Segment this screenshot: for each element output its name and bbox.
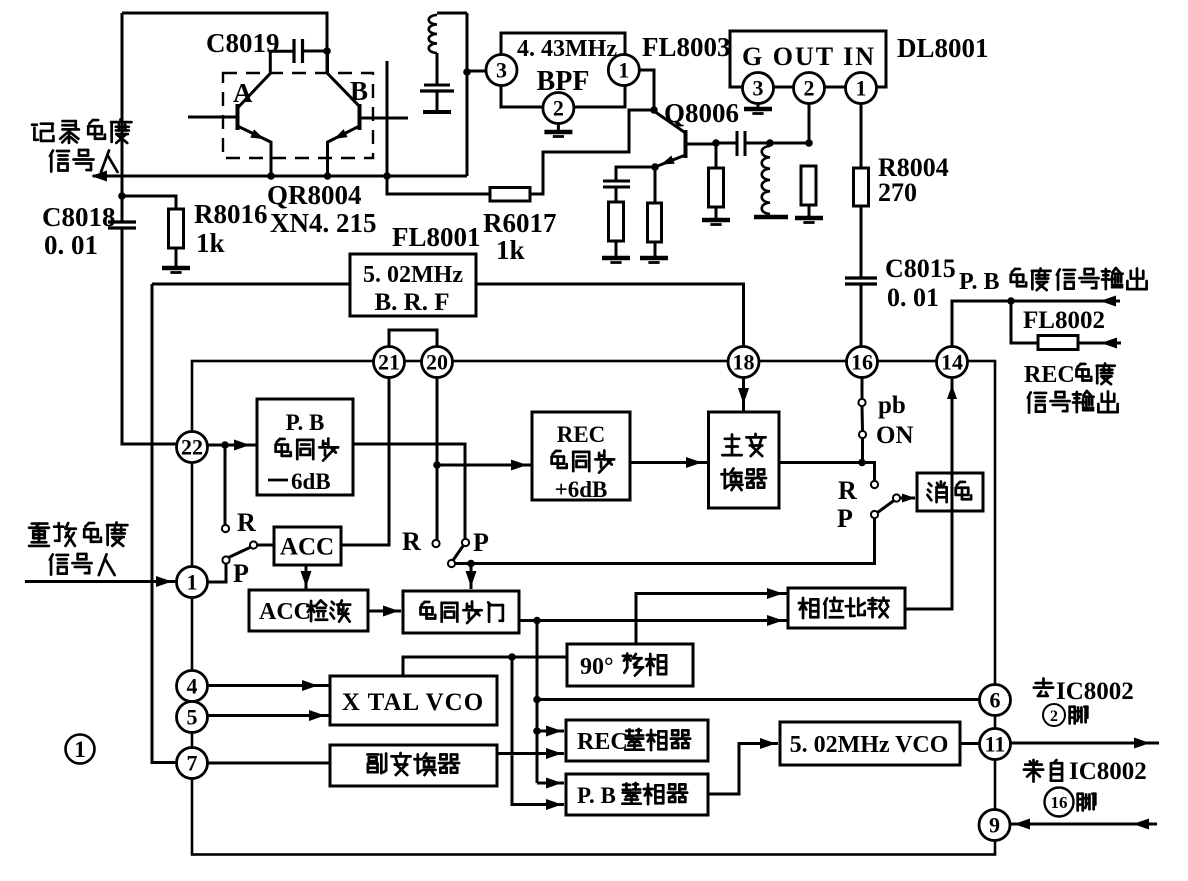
node B emitter on record line [324, 172, 332, 180]
svg-text:6: 6 [990, 687, 1001, 712]
switch contact P (gate sw) [462, 539, 469, 546]
wire pin2-R ground [808, 205, 811, 216]
block REC +6dB box [532, 412, 630, 500]
svg-text:1: 1 [74, 737, 86, 762]
svg-text:C8015: C8015 [885, 254, 956, 283]
svg-text:DL8001: DL8001 [897, 33, 989, 63]
pin 3 DL8001 [743, 73, 774, 104]
pin 14 [937, 347, 968, 378]
wire gate branch down [536, 621, 539, 784]
pin 2 DL8001 [794, 73, 825, 104]
arrowhead into gate top [466, 571, 477, 587]
transistor A emitter arrow [250, 129, 264, 139]
node P.B input branch [221, 441, 229, 449]
arrowhead into P.B box [234, 440, 250, 451]
transistor A base bar [236, 104, 240, 130]
wire R8004 to C8015 [860, 206, 863, 277]
pin 18 [728, 347, 759, 378]
block burst gate box [403, 591, 519, 633]
label 换器 [721, 468, 766, 490]
ground under DL8001 pin3 [744, 109, 772, 114]
wire pin5 to vco [208, 714, 331, 717]
wire pole to killer [900, 497, 915, 500]
node Q8006 emitter [651, 163, 659, 171]
wire pin22 input [122, 443, 177, 446]
svg-text:IC8002: IC8002 [1056, 678, 1134, 705]
pin 9 [979, 810, 1010, 841]
svg-text:REC: REC [1024, 362, 1075, 388]
label 重放色度 [29, 523, 127, 546]
transistor A emitter [238, 126, 272, 142]
block ACC box [274, 527, 341, 565]
svg-text:B. R. F: B. R. F [375, 289, 450, 316]
svg-text:R: R [402, 527, 421, 556]
switch lever (kill sw) [878, 501, 895, 513]
wire BRF left riser to pin7 [152, 284, 177, 763]
capacitor C8018 plates [108, 222, 136, 228]
svg-text:11: 11 [985, 731, 1006, 756]
switch contact R (kill sw) [871, 481, 878, 488]
label 主变 [722, 434, 765, 456]
wire subcarrier drop [512, 657, 564, 805]
wire 5.02 VCO to pin11 [960, 742, 980, 745]
wire to pin 6 [537, 698, 980, 701]
svg-text:0. 01: 0. 01 [887, 283, 939, 312]
node tuning coil tap [766, 139, 774, 147]
ground under left R [602, 258, 630, 263]
pin 4 [177, 671, 208, 702]
pin 2 FL8003 [543, 93, 574, 124]
filter FL8001 box (B.R.F) [350, 254, 476, 316]
transistor B emitter [328, 126, 360, 142]
wire tank top [437, 12, 467, 15]
wire to ground (right R) [654, 242, 657, 256]
wire top loop of record-amp block [122, 13, 327, 73]
transistor B collector [328, 73, 360, 106]
arrowhead into converter top [738, 388, 749, 404]
svg-text:pb: pb [878, 392, 906, 419]
wire FL8002 out [1078, 342, 1121, 345]
transistor Q8006 emitter arrow [661, 155, 675, 164]
wire coil node to DL8001 node [770, 142, 809, 145]
node gate output branch [533, 617, 541, 625]
pin 7 [177, 748, 208, 779]
wire coupling cap to coil node [745, 142, 770, 145]
node FL8002 branch [1007, 297, 1015, 305]
block X TAL VCO box [330, 676, 497, 725]
pin 5 [177, 702, 208, 733]
wire R6017 to Q8006 base node [530, 110, 653, 194]
wire DL8001 pin3 stem [757, 103, 760, 107]
resistor R8004 [854, 168, 869, 206]
wire C8018 to pin 22 [122, 228, 177, 444]
switch pole (left sw) [222, 556, 229, 563]
arrowhead pin9 near [1014, 819, 1030, 830]
arrowhead pin9 far [1133, 819, 1149, 830]
svg-text:18: 18 [733, 349, 755, 374]
node C8019/top-loop [323, 47, 331, 55]
svg-text:20: 20 [426, 349, 448, 374]
svg-text:1: 1 [187, 569, 198, 594]
svg-text:P: P [233, 559, 249, 588]
arrowhead pin11 out [1134, 738, 1150, 749]
wire DL8001 pin1 down [860, 103, 863, 168]
arrowhead REC output [1101, 338, 1117, 349]
ground under FL8003 pin2 [544, 132, 572, 137]
wire BRF right to pin 18 [476, 284, 744, 346]
arrowhead into gate [383, 606, 399, 617]
svg-text:+6dB: +6dB [555, 477, 608, 502]
label REC鉴相器 (cjk) [625, 729, 690, 750]
wire cap to resistor [615, 187, 618, 202]
wire ACC to pin21 [341, 378, 389, 546]
node A emitter on record line [267, 172, 275, 180]
arrowhead into pin 1 [156, 576, 172, 587]
label 副变换器 [367, 753, 459, 775]
transistor B base bar [358, 104, 362, 130]
wire B emitter down [326, 141, 329, 176]
block P.B detector box [566, 774, 708, 815]
svg-text:FL8003: FL8003 [642, 32, 731, 62]
arrowhead into 5.02 VCO [760, 738, 776, 749]
wire cap to bar [436, 91, 439, 110]
wire base to coupling cap [716, 142, 737, 145]
transistor Q8006 emitter [655, 155, 686, 167]
arrowhead into REC det (sub) [546, 748, 562, 759]
wire ACC down to ACC-det [305, 565, 308, 589]
wire into P.B detector upper [537, 782, 564, 785]
node subcarrier branch [508, 653, 516, 661]
arrowhead into killer [902, 494, 915, 503]
ground under pin2 R [795, 218, 823, 223]
block colour killer box [917, 473, 983, 511]
pin 6 [980, 685, 1011, 716]
svg-text:REC: REC [557, 422, 606, 447]
capacitor tank plates [420, 85, 454, 91]
wire pb to node [861, 438, 864, 463]
wire R8016 to ground [175, 248, 178, 266]
wire P.B box output [353, 444, 465, 539]
wire R8016 branch [122, 196, 176, 209]
resistor FL8002 [1038, 336, 1078, 350]
capacitor C8015 plates [845, 278, 877, 284]
svg-text:G OUT IN: G OUT IN [742, 42, 876, 71]
wire pin21 stub [388, 378, 391, 546]
wire pin9 input [1010, 823, 1157, 826]
svg-text:C8019: C8019 [206, 28, 280, 58]
svg-text:R: R [237, 508, 256, 537]
node pin6 branch [533, 696, 541, 704]
label 记录色度 [32, 120, 131, 143]
arrowhead into PB det lower [546, 799, 562, 810]
block main converter box [709, 412, 780, 508]
resistor base R [709, 168, 724, 207]
wire A emitter down [270, 141, 273, 176]
arrowhead comparator upper [767, 588, 783, 599]
wire bracket over pins 21/20 [389, 330, 437, 346]
svg-text:9: 9 [989, 812, 1000, 837]
svg-text:P: P [473, 528, 489, 557]
wire pin7 to subconverter [208, 762, 331, 765]
dashed outline QR8004 package [223, 73, 373, 158]
arrowhead pin4 [302, 680, 318, 691]
svg-text:4. 43MHz: 4. 43MHz [517, 36, 617, 62]
wire base R ground [715, 207, 718, 218]
node pb switch tie [858, 459, 866, 467]
label 移相 [623, 653, 666, 675]
ground under R8016 [162, 268, 190, 273]
resistor R8016 [169, 209, 184, 248]
ground under coil [754, 215, 788, 220]
svg-text:Q8006: Q8006 [664, 98, 739, 128]
wire coil to cap [436, 53, 439, 85]
transistor Q8006 base lead [686, 143, 716, 146]
arrowhead pin5 [309, 710, 325, 721]
pin 1 [177, 567, 208, 598]
svg-text:FL8001: FL8001 [392, 222, 481, 252]
svg-text:FL8002: FL8002 [1023, 307, 1105, 334]
svg-text:3: 3 [753, 75, 764, 100]
switch contact ACC side [250, 541, 257, 548]
svg-text:5. 02MHz VCO: 5. 02MHz VCO [790, 732, 949, 758]
wire DL8001 pin2 down [808, 103, 811, 143]
label 去IC8002 [1034, 678, 1134, 705]
wire FL8003 pin2 ground stem [557, 123, 560, 130]
label 色同步门 [421, 601, 503, 623]
svg-text:P. B: P. B [286, 410, 325, 435]
svg-text:IC8002: IC8002 [1069, 758, 1147, 785]
svg-text:ACC: ACC [280, 534, 334, 561]
label 消色 [927, 481, 971, 502]
block ACC detector box [249, 590, 368, 631]
wire C8015 to pin 16 [860, 284, 863, 346]
transistor Q8006 collector [654, 111, 686, 133]
pin 1 DL8001 [846, 73, 877, 104]
svg-text:R6017: R6017 [483, 208, 557, 238]
svg-text:5. 02MHz: 5. 02MHz [363, 262, 463, 288]
svg-text:1: 1 [618, 57, 629, 82]
ground under base R [702, 220, 730, 225]
label REC色度 [1024, 362, 1115, 388]
block P.B -6dB box [257, 399, 353, 495]
node R8016 tap [118, 192, 126, 200]
wire ACC-det to gate [368, 610, 401, 613]
svg-text:7: 7 [187, 750, 198, 775]
block 90 phase shifter box [567, 644, 693, 686]
switch contact R (gate sw) [432, 540, 439, 547]
wire base node down [715, 143, 718, 168]
label P.B色度信号输出 [959, 268, 1147, 295]
wire emitter RC branch [616, 167, 655, 180]
svg-text:R8016: R8016 [194, 199, 268, 229]
svg-text:1k: 1k [196, 228, 225, 258]
svg-text:P. B: P. B [577, 783, 616, 808]
transistor Q8006 bar [684, 130, 688, 158]
wire gate pole line [455, 562, 874, 565]
switch contact R (left sw) [222, 525, 229, 532]
wire 90deg to comparator [636, 594, 788, 645]
wire vco top line [403, 657, 567, 676]
wire B-base stub vertical [386, 61, 389, 176]
switch lever (gate sw) [453, 546, 464, 561]
svg-text:3: 3 [496, 57, 507, 82]
switch contact P (kill sw) [871, 511, 878, 518]
ground bar under tank cap [423, 110, 451, 114]
wire pin14 to PB output [952, 301, 1120, 346]
svg-text:2: 2 [804, 75, 815, 100]
wire BRF left [152, 283, 350, 286]
switch lever pb [861, 406, 865, 431]
wire pin1 to switch pole [208, 564, 227, 583]
node Q8006 collector [650, 106, 658, 114]
label P.B鉴相器 (cjk) [622, 783, 687, 804]
svg-text:XN4. 215: XN4. 215 [270, 208, 377, 238]
svg-text:6dB: 6dB [291, 469, 331, 494]
IC block border [192, 361, 995, 855]
wire to ground (left R) [615, 241, 618, 256]
wire pin20 down [436, 378, 439, 541]
switch pole (kill sw) [893, 494, 900, 501]
svg-text:0. 01: 0. 01 [44, 230, 98, 260]
wire FL8003 pin1 to Q8006 collector [639, 70, 654, 110]
switch contact pb lower [859, 431, 866, 438]
svg-text:2: 2 [553, 95, 564, 120]
switch pole (gate sw) [448, 560, 455, 567]
node gate feed [467, 560, 475, 568]
arrowhead comparator lower [767, 615, 783, 626]
wire record chroma line [93, 175, 467, 178]
label 信号入 (playback) [50, 554, 115, 575]
node base divider [712, 139, 720, 147]
svg-text:4: 4 [187, 673, 198, 698]
svg-text:X TAL VCO: X TAL VCO [342, 689, 484, 716]
svg-text:R: R [838, 476, 857, 505]
label 相位比较 [799, 597, 889, 618]
label 信号输出 [1028, 391, 1118, 413]
label ACC检波 (cjk part) [307, 600, 350, 621]
resistor emitter R (left) [609, 202, 624, 241]
svg-text:P. B: P. B [959, 269, 999, 295]
wire emitter to right R [654, 167, 657, 203]
arrowhead into REC det [546, 726, 562, 737]
wire FL8002 branch [1011, 301, 1038, 343]
wire pin20 branch to REC box [437, 464, 532, 467]
pin 16 [847, 347, 878, 378]
transistor A collector [238, 51, 295, 108]
resistor R6017 [490, 188, 530, 202]
resistor under DL8001 pin2 [801, 166, 816, 205]
arrowhead into ACC-det [301, 571, 312, 587]
label -6dB [268, 469, 331, 494]
pin 22 [177, 432, 208, 463]
wire tank to FL8003 pin3 [467, 70, 486, 73]
svg-text:1: 1 [856, 75, 867, 100]
node REC box feed [433, 461, 441, 469]
inductor under base node [762, 146, 770, 214]
wire R6017 left [387, 176, 490, 194]
svg-text:QR8004: QR8004 [267, 180, 362, 210]
node R6017 branch on record line [383, 172, 391, 180]
svg-text:22: 22 [181, 434, 203, 459]
pin 3 FL8003 [486, 55, 517, 86]
wire PB det to 5.02 VCO [708, 744, 778, 795]
filter FL8003 box [501, 33, 625, 107]
figure number circled 1 [66, 735, 95, 764]
label 信号入 (record) [50, 150, 118, 172]
wire REC box to converter [630, 461, 709, 464]
arrowhead into REC box [511, 460, 527, 471]
node tank output [463, 68, 471, 76]
arrowhead PB output [1100, 296, 1116, 307]
inductor tank coil [429, 15, 437, 53]
resistor emitter R (right) [648, 203, 662, 242]
arrowhead record chroma (left) [91, 171, 107, 182]
transistor A base lead [188, 116, 237, 119]
label 色同步 (REC box) [552, 450, 615, 472]
svg-text:ACC: ACC [259, 599, 311, 625]
block sub converter box [330, 745, 497, 786]
svg-text:ON: ON [876, 422, 914, 449]
wire C8019 right to node [303, 50, 328, 53]
capacitor coupling plates [737, 131, 745, 156]
node DL8001 pin2 drop [805, 139, 813, 147]
svg-text:16: 16 [1051, 793, 1068, 812]
pin 1 FL8003 [608, 55, 639, 86]
ground under right R [640, 258, 668, 263]
capacitor C8019 plates [294, 39, 303, 63]
wire gate output long [519, 619, 788, 622]
pin 21 [374, 347, 405, 378]
wire tank right side [466, 13, 469, 176]
wire pin18 into converter [742, 378, 745, 413]
wire converter output [779, 463, 875, 482]
svg-text:270: 270 [878, 178, 917, 207]
label circled-2 脚 [1043, 704, 1087, 726]
svg-text:14: 14 [941, 349, 963, 374]
arrowhead into PB det upper [546, 778, 562, 789]
svg-text:C8018: C8018 [42, 202, 116, 232]
wire pin22 to P.B box [208, 444, 258, 447]
wire pin14 through killer to comparator [905, 378, 952, 610]
arrowhead up to pin14 [947, 385, 957, 399]
wire subconverter output [497, 752, 564, 755]
svg-text:16: 16 [851, 349, 873, 374]
pin 20 [422, 347, 453, 378]
svg-text:21: 21 [378, 349, 400, 374]
switch contact pb upper [858, 399, 865, 406]
label circled-16 脚 [1045, 788, 1096, 817]
wire into REC detector [537, 730, 564, 733]
arrowhead into converter left [686, 457, 702, 468]
wire gate feed drop [470, 564, 473, 590]
wire pin16 down [861, 378, 864, 400]
label 色同步 (P.B box) [276, 438, 339, 460]
svg-text:P: P [837, 504, 853, 533]
transistor B base lead [360, 117, 408, 120]
svg-text:REC: REC [577, 729, 628, 755]
svg-text:90°: 90° [580, 654, 614, 680]
node REC-det branch [533, 727, 541, 735]
switch lever (left sw) [229, 547, 252, 558]
block REC detector box [566, 720, 708, 761]
block 5.02MHz VCO box [780, 722, 960, 765]
playback input wire [25, 580, 177, 583]
wire pole to ACC [257, 544, 274, 547]
wire pin11 output [1011, 742, 1160, 745]
capacitor emitter plates [603, 181, 630, 187]
svg-text:5: 5 [187, 704, 198, 729]
wire branch down to R contact [224, 445, 227, 525]
